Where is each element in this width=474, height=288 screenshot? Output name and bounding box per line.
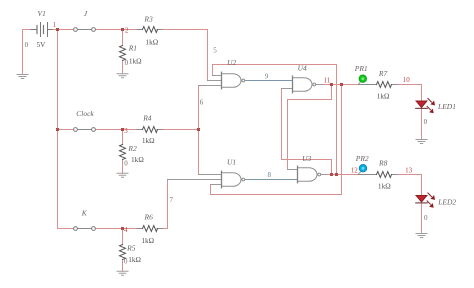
svg-text:U4: U4 [298, 64, 307, 73]
svg-text:11: 11 [324, 76, 331, 84]
svg-text:R4: R4 [142, 114, 152, 123]
svg-text:U1: U1 [227, 158, 236, 167]
svg-text:12: 12 [351, 167, 359, 175]
svg-text:1kΩ: 1kΩ [378, 182, 391, 191]
svg-text:2: 2 [125, 27, 129, 35]
svg-text:9: 9 [265, 72, 269, 80]
svg-text:PR2: PR2 [355, 154, 369, 163]
svg-text:0: 0 [124, 258, 128, 266]
svg-text:6: 6 [200, 98, 204, 106]
svg-text:1kΩ: 1kΩ [128, 255, 141, 264]
svg-text:1kΩ: 1kΩ [129, 57, 142, 66]
svg-text:1kΩ: 1kΩ [131, 155, 144, 164]
svg-text:V1: V1 [38, 9, 46, 18]
svg-text:7: 7 [169, 196, 173, 204]
svg-text:R6: R6 [144, 213, 154, 222]
svg-text:R2: R2 [127, 144, 137, 153]
svg-text:1kΩ: 1kΩ [142, 136, 155, 145]
svg-text:0: 0 [424, 214, 428, 222]
svg-text:3: 3 [124, 127, 128, 135]
svg-text:R5: R5 [126, 244, 136, 253]
svg-text:0: 0 [124, 159, 128, 167]
svg-text:LED2: LED2 [437, 198, 456, 207]
svg-text:1kΩ: 1kΩ [141, 236, 154, 245]
svg-text:0: 0 [125, 59, 129, 67]
svg-text:R1: R1 [128, 44, 137, 53]
svg-text:5V: 5V [37, 40, 47, 49]
svg-text:1kΩ: 1kΩ [377, 91, 390, 100]
svg-text:PR1: PR1 [354, 64, 368, 73]
svg-text:1: 1 [53, 21, 57, 29]
svg-text:LED1: LED1 [437, 102, 456, 111]
svg-text:K: K [81, 209, 88, 218]
svg-text:10: 10 [403, 76, 411, 84]
svg-text:R7: R7 [378, 69, 388, 78]
svg-text:R8: R8 [378, 159, 388, 168]
svg-text:5: 5 [213, 46, 217, 54]
svg-text:U2: U2 [227, 58, 236, 67]
svg-text:13: 13 [405, 167, 413, 175]
svg-text:1kΩ: 1kΩ [145, 37, 158, 46]
svg-text:4: 4 [124, 226, 128, 234]
svg-text:Clock: Clock [76, 109, 94, 118]
svg-text:R3: R3 [143, 15, 153, 24]
svg-text:0: 0 [424, 118, 428, 126]
svg-text:U3: U3 [302, 154, 311, 163]
svg-text:8: 8 [268, 171, 272, 179]
svg-text:0: 0 [25, 41, 29, 49]
